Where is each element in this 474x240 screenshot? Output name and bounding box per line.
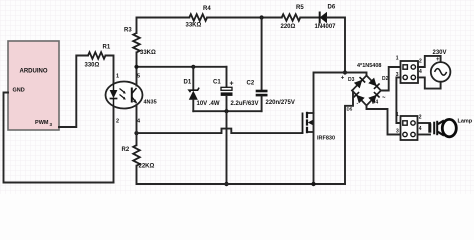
junction C1 bottom [224, 109, 228, 113]
wire J1 pin4 to AC source bottom [418, 77, 441, 88]
svg-text:IRF830: IRF830 [317, 136, 335, 142]
svg-text:+: + [436, 57, 440, 63]
arduino block U2 [8, 41, 59, 130]
wire supply node horizontal (pin5/R3 to C1) [137, 66, 227, 68]
capacitor C2 220n/275V [247, 18, 295, 112]
wire gate: pin4 junction to MOSFET gate with hop over C1 wire [137, 129, 303, 134]
bridge diode D4 (bottom-right edge) [368, 92, 379, 105]
svg-text:+: + [341, 76, 345, 82]
wire opto pin5 up to R3 [136, 52, 138, 85]
svg-text:R4: R4 [203, 6, 211, 12]
svg-text:Lamp: Lamp [458, 118, 473, 124]
svg-text:C2: C2 [247, 81, 255, 87]
svg-text:220Ω: 220Ω [281, 24, 296, 30]
junction at source rail [224, 182, 228, 186]
wire J1 pin3 down to J2 pin1 [396, 77, 400, 123]
svg-text:1N4007: 1N4007 [315, 24, 337, 30]
svg-text:D3: D3 [348, 77, 355, 83]
optocoupler U1 4N35 [106, 74, 157, 125]
wire J2 pin4 to lamp [418, 134, 431, 136]
svg-text:~: ~ [382, 96, 386, 102]
transistor Q1 IRF830 [303, 112, 336, 142]
svg-text:PWM: PWM [35, 120, 49, 126]
wire C1 node down to source rail (with hop) [226, 111, 228, 184]
connector J2 (lamp) [396, 112, 422, 140]
svg-text:4: 4 [419, 69, 422, 75]
svg-text:2.2uF/63V: 2.2uF/63V [231, 101, 259, 107]
resistor R5 220ohm [281, 5, 305, 30]
svg-text:D4: D4 [372, 100, 379, 106]
lamp X1 [428, 118, 473, 137]
diode D6 1N4007 [315, 5, 337, 31]
svg-text:R5: R5 [296, 5, 304, 11]
svg-text:D6: D6 [328, 5, 336, 11]
connector J1 (mains) [396, 56, 422, 84]
svg-text:10V .4W: 10V .4W [197, 101, 220, 107]
svg-text:R3: R3 [124, 28, 132, 34]
wire bridge ~ (bottom vertex) to terminal J2 pin3 [367, 106, 401, 135]
wire R1 to opto pin1 [106, 56, 114, 85]
resistor R1 330ohm [85, 45, 111, 69]
svg-text:2: 2 [419, 115, 422, 121]
svg-text:R2: R2 [122, 147, 130, 153]
svg-text:GND: GND [13, 88, 25, 94]
capacitor C1 2.2uF/63V [213, 67, 259, 111]
svg-text:1: 1 [116, 74, 119, 80]
svg-text:D1: D1 [184, 80, 192, 86]
wire bridge ~ (right vertex) to terminal J1 pin1 [381, 67, 401, 91]
svg-text:2: 2 [116, 119, 119, 125]
resistor R3 33Kohm [124, 28, 156, 57]
svg-text:220n/275V: 220n/275V [266, 100, 295, 106]
wire J2 pin2 to lamp [418, 122, 431, 124]
svg-text:R1: R1 [103, 45, 111, 51]
resistor R4 33Kohm [186, 6, 212, 29]
wire R5 to D6 [300, 17, 319, 19]
svg-text:D2: D2 [382, 76, 389, 82]
junction at R3/pin5 [134, 65, 138, 69]
junction at D1 top [191, 65, 195, 69]
wire MOSFET source down to rail [313, 113, 315, 184]
svg-text:4N35: 4N35 [144, 100, 157, 106]
svg-text:4*1N5408: 4*1N5408 [357, 63, 381, 69]
svg-text:1: 1 [396, 112, 399, 118]
svg-text:33KΩ: 33KΩ [140, 50, 156, 56]
wire opto pin2 vertical [113, 106, 115, 183]
svg-text:230V: 230V [433, 50, 447, 56]
bridge diode D2 (top-right edge) [368, 76, 388, 89]
wire bridge - (left vertex) to source rail [345, 91, 353, 185]
svg-text:3: 3 [396, 129, 399, 135]
bridge diode D3 (top-left edge) [348, 77, 365, 88]
wire R4 to R5 (C2 tap) [207, 17, 282, 19]
svg-text:+: + [229, 81, 233, 88]
svg-text:22KΩ: 22KΩ [139, 164, 155, 170]
junction top rail / C2 [260, 15, 264, 19]
wire J1 pin2 to AC source top [418, 56, 441, 67]
wire D6 to bridge + / drain [327, 18, 345, 73]
svg-text:2: 2 [419, 59, 422, 65]
resistor R2 22Kohm [122, 145, 155, 169]
svg-text:33KΩ: 33KΩ [186, 23, 202, 29]
junction D6/drain [343, 70, 347, 74]
wire R2 bottom to source rail [137, 166, 346, 184]
wire MOSFET drain up to bridge + [314, 73, 367, 114]
svg-text:C1: C1 [213, 80, 221, 86]
svg-text:1: 1 [396, 56, 399, 62]
wire D1/C1/C2 bottom node [193, 110, 261, 112]
svg-text:D5: D5 [347, 107, 353, 112]
svg-text:330Ω: 330Ω [85, 63, 100, 69]
wire GND net: arduino GND to opto pin2 [4, 93, 114, 183]
wire R3 top / top rail to R4 [137, 18, 190, 34]
bridge diode D5 (bottom-left edge) [347, 92, 365, 111]
junction source rail [311, 182, 315, 186]
svg-text:ARDUINO: ARDUINO [20, 69, 48, 75]
wire opto pin4 down to R2 [136, 105, 138, 146]
AC source V1 230V [431, 50, 451, 82]
zener diode D1 10V .4W [184, 67, 220, 111]
bridge rectifier 4*1N5408 [341, 63, 386, 107]
junction gate node at opto pin4 [134, 131, 138, 135]
svg-text:4: 4 [419, 126, 422, 132]
wire PWM to R1 [59, 56, 88, 128]
